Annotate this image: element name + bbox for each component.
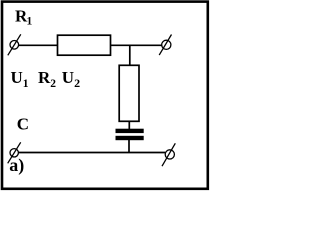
terminal (top-left input)	[8, 34, 21, 55]
svg-text:a): a)	[9, 155, 24, 176]
terminal (bottom-right)	[162, 143, 175, 166]
wire (bottom rail)	[18, 152, 165, 154]
wire (capacitor to bottom rail)	[128, 140, 130, 153]
wire (top rail, left segment)	[19, 44, 58, 46]
wire (top rail, right segment)	[111, 44, 163, 46]
svg-text:1: 1	[27, 16, 33, 28]
wire (R2 bottom to capacitor)	[128, 121, 130, 129]
capacitor C (plates)	[116, 129, 144, 141]
wire (junction drop from top rail to R2)	[129, 45, 131, 66]
terminal (bottom-left)	[8, 142, 21, 163]
resistor R1	[58, 35, 111, 55]
resistor R2	[119, 65, 139, 121]
svg-text:C: C	[17, 115, 29, 134]
label R1	[15, 6, 33, 27]
terminal (top-right output)	[159, 35, 171, 56]
